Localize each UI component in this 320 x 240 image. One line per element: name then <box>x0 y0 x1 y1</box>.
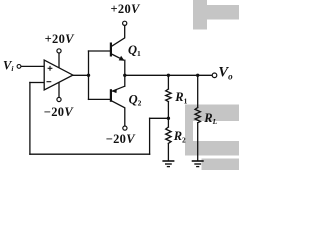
watermark gray block top vertical bar <box>193 0 207 30</box>
wire Q2 collector lead <box>112 101 125 126</box>
transistor Q2 emitter diagonal with arrow <box>112 86 125 91</box>
ground below RL <box>192 161 204 167</box>
resistor R2 lead bottom <box>167 143 169 160</box>
terminal op-amp +20V <box>57 49 61 53</box>
wire base column <box>88 51 90 99</box>
svg-text:−20V: −20V <box>44 105 75 119</box>
wire inverting input <box>30 82 44 84</box>
wire Q2 emitter lead <box>124 75 126 86</box>
junction node R1 top <box>167 74 170 77</box>
wire Q1 collector lead <box>112 25 125 46</box>
resistor R2 lead top <box>167 118 169 127</box>
transistor Q1 base bar <box>110 43 112 57</box>
wire feedback to R1-R2 junction <box>150 117 169 119</box>
transistor Q1 emitter diagonal with arrow <box>112 54 124 60</box>
wire output rail <box>125 74 212 76</box>
op-amp plus input sign <box>48 66 53 71</box>
wire feedback bottom horizontal <box>30 153 150 155</box>
wire Q1 base <box>89 50 111 52</box>
svg-text:+20V: +20V <box>111 2 142 16</box>
resistor R1 branch lead top <box>167 75 169 89</box>
wire op-amp output <box>73 74 89 76</box>
watermark gray stem middle right <box>185 105 193 156</box>
terminal Vo <box>212 73 217 78</box>
op-amp U1 triangle <box>44 60 73 90</box>
watermark gray block top horizontal bar <box>206 5 240 20</box>
junction node emitters <box>123 74 126 77</box>
junction node RL top <box>196 74 199 77</box>
resistor R1 zigzag <box>166 89 171 102</box>
terminal Vi <box>17 65 21 69</box>
transistor Q2 base bar <box>110 89 112 102</box>
junction node op-amp output <box>87 74 90 77</box>
terminal Q1 +20V <box>123 21 127 25</box>
wire Q2 base <box>89 98 111 100</box>
wire Q1 emitter lead <box>124 60 126 75</box>
ground below R2 <box>162 161 174 167</box>
resistor R2 zigzag <box>166 127 171 143</box>
watermark gray block bottom right <box>202 159 240 171</box>
watermark gray band A <box>189 105 240 122</box>
terminal op-amp -20V <box>57 97 61 101</box>
wire op-amp -supply stub <box>58 82 60 97</box>
resistor RL zigzag <box>195 108 200 123</box>
svg-text:+20V: +20V <box>45 32 76 46</box>
wire feedback left vertical <box>29 83 31 155</box>
terminal Q2 -20V <box>123 126 127 130</box>
wire Vi input to op-amp + <box>21 65 44 67</box>
wire op-amp +supply stub <box>58 53 60 68</box>
op-amp minus input sign <box>47 81 52 83</box>
svg-text:−20V: −20V <box>106 132 137 146</box>
resistor R1 lead bottom <box>167 102 169 119</box>
resistor RL lead top <box>197 75 199 107</box>
junction node R1-R2-feedback <box>167 117 170 120</box>
watermark gray band B <box>189 141 240 156</box>
resistor RL lead bottom <box>197 123 199 161</box>
wire feedback right vertical <box>149 118 151 154</box>
